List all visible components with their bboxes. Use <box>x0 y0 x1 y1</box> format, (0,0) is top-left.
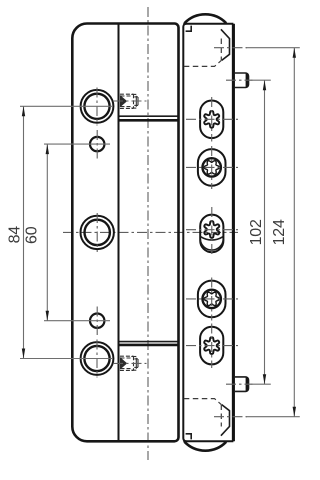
frame bar top edge <box>183 23 233 25</box>
bottom cap hidden pocket <box>184 399 247 440</box>
dimension line 84 <box>23 106 25 358</box>
svg-text:60: 60 <box>24 226 41 244</box>
set screw (hidden) top <box>120 94 134 108</box>
hole H1 top big (inner) <box>84 94 109 119</box>
pin top <box>226 73 253 88</box>
screw S3 slot oval <box>200 215 223 253</box>
set screw (hidden) bottom <box>120 356 134 370</box>
screw S5 slot oval <box>200 327 223 365</box>
bottom cap dome <box>185 442 227 451</box>
pin top centerline <box>226 79 253 81</box>
cap centerline dash-dot <box>214 416 247 418</box>
svg-text:84: 84 <box>7 226 24 244</box>
extension line H4 / dim 60 bottom <box>44 320 110 322</box>
centerline H4 vertical <box>96 307 98 336</box>
screw S1 slot oval <box>200 101 223 139</box>
set screw bottom centerline <box>113 362 147 364</box>
centerline H5 vertical <box>96 340 98 378</box>
frame bar right edge <box>232 24 235 442</box>
cap centerline dash-dot <box>214 47 247 49</box>
centerline H3 vertical <box>96 213 98 252</box>
screw S4 head circle <box>203 290 221 308</box>
dashed pocket bottom <box>184 60 222 66</box>
frame bar left edge <box>183 24 186 442</box>
dimension line 102 <box>264 80 266 384</box>
centerline H1 vertical <box>96 88 98 126</box>
bottom knuckle joint thick line <box>120 344 178 347</box>
screw S3 torx star <box>204 221 219 238</box>
hole H3 middle big (outer) <box>81 216 114 249</box>
top cap hidden pocket <box>184 26 247 67</box>
extension line 102 bottom <box>251 383 271 385</box>
arrow 124 top <box>293 48 296 58</box>
svg-text:102: 102 <box>248 219 265 245</box>
extension line 124 top <box>246 47 300 49</box>
arrow 102 top <box>263 80 266 90</box>
set screw top centerline <box>113 100 147 102</box>
dimension line 60 <box>46 144 48 321</box>
chamfer solid bottom-right <box>221 405 230 436</box>
arrow 84 bottom <box>22 349 25 359</box>
hinge axis center line (vertical dash-dot) <box>147 7 149 460</box>
frame part outline <box>183 24 233 442</box>
leaf body outline <box>72 24 178 442</box>
screw S3 head edge arc <box>200 237 223 241</box>
screw S1 torx star <box>204 111 219 128</box>
arrow 60 top <box>46 144 49 154</box>
set screw bottom cone point <box>120 357 127 370</box>
screw S3 centerlines <box>211 207 213 256</box>
extension line 124 bottom <box>246 416 300 418</box>
screw S4 centerlines <box>211 278 213 321</box>
pin bottom centerline <box>226 383 253 385</box>
screw S1 centerlines <box>211 97 213 142</box>
extension line H1 / dim 84 top <box>20 105 113 107</box>
arrow 124 bottom <box>293 407 296 417</box>
corner mark top-left <box>186 26 192 32</box>
corner mark bottom-left <box>186 434 192 440</box>
top knuckle joint thin line <box>120 115 178 117</box>
set screw top cone point <box>120 95 127 107</box>
set screw bottom cap <box>131 357 138 371</box>
extension line H5 / dim 84 bottom <box>20 358 113 360</box>
screw S5 centerlines <box>211 324 213 369</box>
hole H5 bottom big (inner) <box>84 346 109 371</box>
screw S5 torx star <box>204 337 219 354</box>
extension line H2 / dim 60 top <box>44 143 110 145</box>
screw S2 head circle <box>203 158 221 176</box>
hole H4 small bottom <box>90 314 104 328</box>
top cap dome <box>185 14 227 23</box>
screw S2 torx <box>204 161 219 174</box>
hole H5 bottom big (outer) <box>81 342 114 375</box>
bottom knuckle joint thin line <box>120 341 178 343</box>
screw S2 slot oval <box>198 149 226 186</box>
hole H3 middle big (inner) <box>85 220 110 245</box>
hinge horizontal center line <box>63 231 238 233</box>
screw S3 head lower arc <box>200 240 223 250</box>
screw S4 slot oval <box>198 281 226 318</box>
dashed vertical pocket line <box>220 405 222 427</box>
centerline H2 vertical <box>96 130 98 159</box>
hole H2 small top <box>90 137 104 151</box>
leaf/knuckle dividing line <box>118 24 120 442</box>
arrow 84 top <box>22 106 25 116</box>
arrow 102 bottom <box>263 374 266 384</box>
chamfer solid top-right <box>221 29 230 60</box>
screw S2 centerlines <box>211 146 213 189</box>
extension line 102 top <box>251 79 271 81</box>
dashed pocket top <box>184 399 222 405</box>
set screw top cap <box>131 94 138 108</box>
svg-text:124: 124 <box>271 219 288 245</box>
pin bottom <box>226 377 253 392</box>
screw S4 torx <box>204 292 219 305</box>
top knuckle joint thick line <box>120 119 178 122</box>
dimension line 124 <box>293 48 295 417</box>
dashed vertical pocket line <box>220 39 222 61</box>
hole H1 top big (outer) <box>81 90 114 123</box>
arrow 60 bottom <box>46 311 49 321</box>
frame bar bottom edge <box>183 440 233 442</box>
